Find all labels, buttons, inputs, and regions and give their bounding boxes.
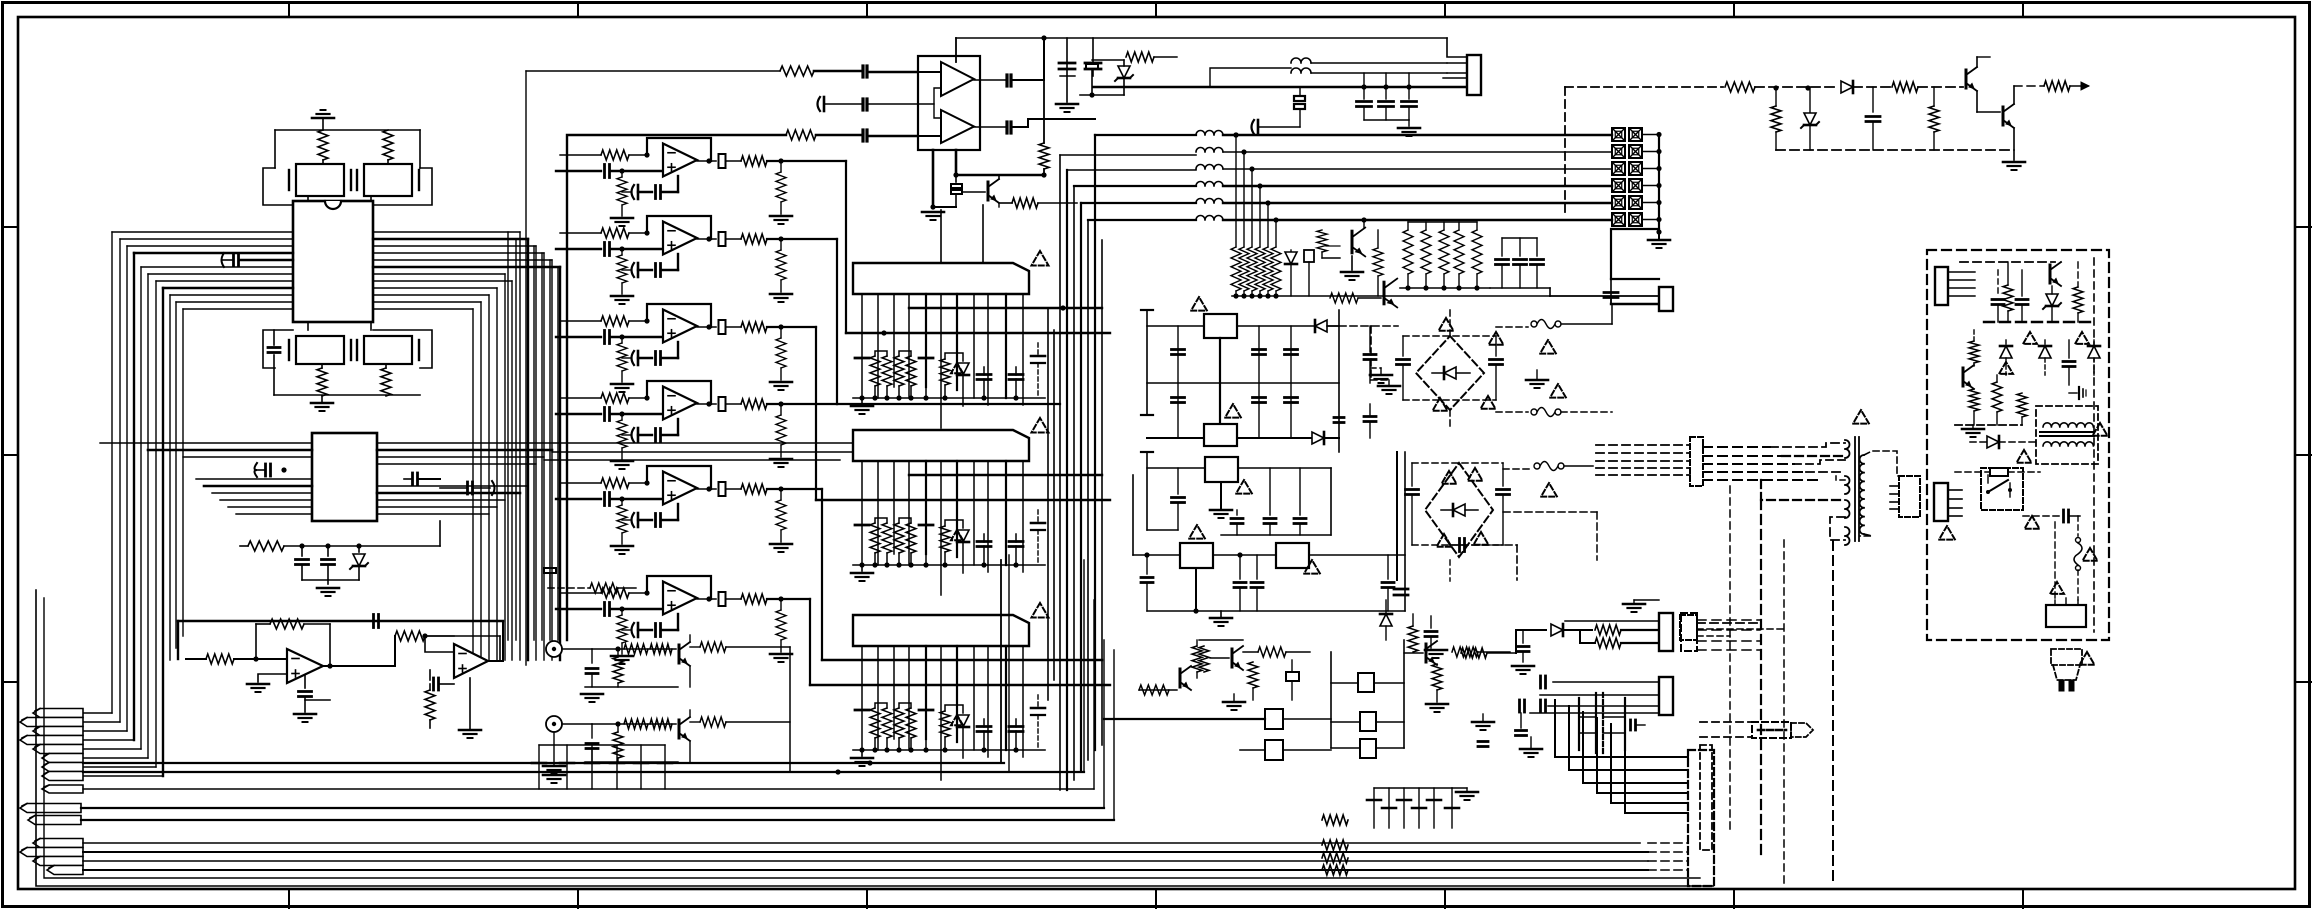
power box dashed outline — [1927, 250, 2109, 640]
op-amp cell input cap — [556, 413, 601, 415]
op-amp cell input resistor — [601, 316, 629, 326]
wire loop x44 — [44, 598, 1700, 878]
resistor bank1 em — [1373, 248, 1383, 276]
wire crystal rail — [275, 129, 420, 131]
wire reg rail — [302, 579, 359, 581]
connector J9 right — [1934, 483, 1948, 521]
RCA gnd rail — [585, 686, 678, 688]
wires J6 to primary — [1703, 446, 1770, 448]
capacitor reg-2 — [327, 546, 329, 556]
bridge rectifier BR1 dashed — [1416, 336, 1484, 410]
op-amp cell shunt resistor — [617, 420, 627, 448]
wires zener cluster — [1080, 94, 1124, 96]
transistor cluster right of U2 — [411, 473, 414, 485]
ground mid2 — [1425, 649, 1447, 652]
resistor op-amp B input — [395, 631, 425, 641]
op-amp cell load ground — [770, 293, 792, 296]
IC array RN3 — [853, 615, 1029, 646]
buffer power pin — [955, 38, 957, 62]
diodes P row — [2000, 346, 2012, 358]
op-amp cell input resistor — [601, 393, 629, 403]
wire top rail y38 — [956, 37, 1447, 39]
buffer internal wires — [918, 88, 941, 104]
wire y886 up to J5 — [1712, 885, 1714, 887]
vertical feed bus for op-amps — [525, 71, 527, 665]
wire thick out RN3 b — [810, 684, 1110, 686]
IC array RN2 — [853, 430, 1029, 461]
RCA ground 2 — [543, 765, 565, 768]
RCA cap — [591, 649, 593, 663]
wire RN1 bottom rail — [853, 397, 1045, 399]
op-amp cell polarized cap — [637, 623, 640, 637]
IC U1 main processor — [293, 201, 373, 322]
wire inlet left — [2054, 522, 2056, 600]
plug prongs — [2059, 680, 2064, 691]
driver R2 box — [1360, 712, 1376, 731]
resistor RN3 r3 — [940, 711, 950, 737]
wire thick out RN1 a — [909, 307, 1102, 309]
op-amp cell output resistor — [741, 594, 767, 604]
capacitor reg right a — [1369, 326, 1371, 352]
warning triangle plug — [2080, 652, 2095, 665]
wire from reg right — [439, 521, 441, 546]
connector J3 dashed pair — [1681, 613, 1697, 651]
capacitor mid2 — [1425, 630, 1437, 633]
wire BR2 right dashed — [1503, 511, 1597, 513]
diode feed — [1551, 624, 1563, 636]
wire top feed 3 — [567, 135, 786, 640]
op-amp cell input resistor — [601, 150, 629, 160]
capacitor C left — [268, 346, 280, 349]
resistor Q mid1 coll — [1192, 646, 1202, 672]
wire bank rail — [1232, 295, 1550, 297]
crystal network below U1 — [307, 322, 309, 330]
zener diode ZD1 — [358, 546, 360, 552]
capacitor RN2 c1 — [855, 524, 869, 527]
feedback op-amp B — [488, 636, 500, 661]
RCA transistor — [678, 720, 681, 738]
op-amp A — [287, 649, 323, 683]
ground below crystal network — [311, 402, 333, 405]
fuse F main — [2077, 516, 2079, 536]
vertical bus right-of-blocks — [1059, 155, 1061, 790]
warning triangle SW — [2025, 516, 2040, 529]
transistor Q TR2 — [1976, 91, 1978, 112]
wire cap row top — [539, 744, 665, 746]
wire mid vertical a — [1330, 652, 1332, 748]
capacitor pair C below-2 — [364, 336, 412, 364]
capacitor RN1 c2 — [919, 357, 933, 360]
wire bus y808 — [81, 807, 1104, 809]
diode RN3 — [957, 715, 969, 727]
op-amp cell output bead — [706, 236, 711, 241]
diode RN1 — [957, 363, 969, 375]
capacitor VR3 a — [1231, 517, 1243, 520]
crystal X1 — [296, 164, 344, 196]
capacitor RN1 c1 — [855, 357, 869, 360]
capacitor RN2 c3 — [977, 540, 991, 543]
warning triangle reg2 — [1225, 404, 1241, 418]
resistor zener-reg — [248, 541, 284, 551]
wire buffer drop a — [940, 210, 942, 263]
wire cell3 elbow down — [815, 327, 817, 500]
op-amp cell polarized cap — [637, 351, 640, 365]
wire J3 third — [1565, 620, 1659, 622]
wire thick bus y135 right — [1233, 132, 1238, 137]
regulator VR5 — [1276, 543, 1309, 568]
capacitor reg right c — [1334, 416, 1344, 419]
transformer T1 secondary — [1860, 455, 1864, 534]
resistor Q mid2 em — [1248, 662, 1258, 688]
wire cell2b to bus — [837, 403, 1060, 405]
op-amp cell output resistor — [741, 322, 767, 332]
capacitor buffer bottom — [955, 175, 957, 182]
fuse F3 — [1534, 463, 1540, 469]
capacitor P b — [2016, 298, 2028, 301]
capacitor T feed — [1629, 720, 1632, 730]
resistor Q mid3 em — [1432, 664, 1442, 690]
connector J8 bottom — [1680, 615, 1697, 640]
resistor dashed area — [590, 583, 618, 593]
IC array RN1 — [853, 263, 1029, 294]
transistor Q mid3 — [1425, 644, 1428, 662]
wires primary steps dashed — [1770, 443, 1845, 447]
ground top-right — [1056, 103, 1078, 106]
op-amp cell output resistor — [741, 156, 767, 166]
wires bus to connector pins — [83, 712, 112, 714]
capacitor bank — [1501, 238, 1503, 256]
capacitor BR2 right — [1497, 488, 1510, 491]
buffer IC box — [918, 56, 980, 150]
op-amp cell load resistor — [776, 250, 786, 280]
wire A to B — [372, 636, 395, 666]
capacitor reg col b — [1258, 326, 1260, 438]
driver R1 box — [1358, 673, 1374, 692]
relay K2 — [1265, 740, 1283, 760]
warning triangle F3 — [1541, 483, 1557, 497]
op-amp cell output bead — [706, 401, 711, 406]
capacitor BR1 right — [1490, 358, 1503, 361]
bus P thick dashed — [1984, 321, 2094, 323]
RCA transistor — [678, 645, 681, 663]
dashed fragment left of BR2 — [1450, 544, 1517, 546]
wire thick out RN3 a — [822, 659, 1102, 661]
warning triangles BR2 — [1442, 471, 1457, 484]
left vertical bus wires — [111, 232, 113, 713]
relay K1 — [1265, 709, 1283, 729]
ground below A — [294, 713, 316, 716]
op-amp cell input cap — [556, 336, 601, 338]
capacitor buffer in 1 — [861, 66, 864, 77]
resistor Q bank base — [1317, 230, 1327, 252]
resistor network RN1 r1 — [870, 356, 880, 386]
wire fan to J5 — [1555, 700, 1688, 757]
op-amp triangle — [663, 472, 697, 505]
component box bank — [1304, 250, 1314, 262]
wires RN3 pins down — [861, 646, 863, 710]
buffer op-amp 1 — [941, 62, 974, 96]
op-amp cell load ground — [770, 458, 792, 461]
resistor op-amp A input — [206, 654, 234, 664]
resistor P vert — [2073, 287, 2083, 313]
warning triangle inlet — [2050, 582, 2064, 594]
wire bus y789 — [83, 788, 1094, 790]
connector J7 plug — [1899, 476, 1920, 517]
op-amp triangle — [663, 582, 697, 615]
dashed stub below — [1700, 745, 1712, 850]
buffer output 2 cap — [974, 126, 1005, 128]
op-amp cell load resistor — [776, 610, 786, 640]
op-amp cell load resistor — [776, 415, 786, 445]
headphone jack tip — [1791, 723, 1813, 737]
isolation caps — [1595, 693, 1597, 753]
wire VR3 bottom — [1221, 534, 1331, 536]
capacitor RN2 c2 — [919, 524, 933, 527]
op-amp B — [454, 644, 488, 678]
regulator VR2 — [1204, 424, 1237, 446]
wire coupler to connector — [1611, 229, 1659, 279]
capacitor EMI pol — [1257, 120, 1260, 134]
wire opamp feed top — [178, 620, 503, 622]
ground reg bottom — [1195, 570, 1197, 611]
op-amp cell feedback loop — [647, 216, 711, 239]
wire buffer drop b — [982, 205, 984, 263]
capacitor buffer in 2 (pol) — [823, 97, 826, 111]
op-amp cell polarized cap — [637, 428, 640, 442]
resistor Q mid3 out — [1452, 647, 1478, 657]
RCA series resistor — [592, 648, 676, 650]
transformer T2 coils — [2043, 423, 2093, 427]
component P bottom — [1990, 468, 2008, 476]
wire VR4-VR5 — [1213, 554, 1276, 556]
border tick marks — [288, 2, 290, 17]
op-amp cell input resistor — [601, 478, 629, 488]
resistor bank below coils — [1235, 135, 1237, 247]
fuse F2 — [1531, 409, 1537, 415]
op-amp cell feedback loop — [647, 304, 711, 327]
op-amp cell polarized cap — [637, 513, 640, 527]
wire op-amp B output — [488, 621, 503, 661]
buffer output 1 cap — [974, 79, 1005, 81]
resistor R osc1 — [318, 130, 328, 160]
zener cluster x1100 — [1086, 64, 1098, 69]
resistor TR vert — [1775, 88, 1777, 106]
ground RN3 — [861, 750, 863, 756]
op-amp cell feedback loop — [647, 466, 711, 489]
op-amp cell load resistor — [776, 338, 786, 368]
vertical x1405 — [1404, 452, 1406, 611]
resistor Q emitter — [1012, 198, 1038, 208]
connector J4 — [1659, 677, 1673, 715]
RCA out resistor — [689, 710, 691, 717]
resistor feed — [1461, 648, 1487, 658]
warning triangle T1 — [1853, 410, 1869, 424]
capacitor VR45 a — [1234, 581, 1246, 584]
op-amp cell output bead — [706, 486, 711, 491]
resistor RN1 r3 — [940, 359, 950, 385]
warning triangle J9 — [1939, 526, 1955, 540]
resistor P mid — [2003, 285, 2013, 311]
op-amp cell input cap — [556, 170, 601, 172]
ground zener-reg — [317, 587, 339, 590]
power box inner dashed — [2093, 258, 2095, 632]
resistor network RN3 r2 — [894, 708, 904, 738]
RCA resistor — [615, 721, 620, 726]
capacitor TR — [1872, 87, 1874, 112]
wire cell1 elbow down — [845, 161, 847, 333]
op-amp cell load resistor — [776, 172, 786, 202]
wire cell5 elbow down — [821, 489, 823, 660]
wires U1 right pins — [373, 231, 520, 233]
wire loop y886 — [36, 590, 1713, 886]
transistor Q bank2 — [1383, 282, 1386, 304]
capacitor VR45 c — [1382, 581, 1394, 584]
connector J5 dashed — [1688, 750, 1714, 886]
capacitor pair C below-1 — [296, 336, 344, 364]
IC U2 secondary — [312, 433, 377, 521]
capacitor trio top — [1363, 73, 1365, 99]
wires BR1 dashed — [1449, 310, 1451, 336]
wires U1 left pins to bus — [112, 231, 293, 233]
capacitor mid box — [1286, 672, 1299, 681]
plug P1 dashed — [2051, 649, 2082, 665]
capacitor op-amp A output — [327, 663, 332, 668]
RCA resistor — [615, 646, 620, 651]
transformer T1 core — [1854, 437, 1856, 541]
wire VR4 feed — [1133, 554, 1180, 556]
wires RN2 pins down — [861, 461, 863, 525]
op-amp cell output bead — [706, 596, 711, 601]
wire P gnd rail — [1955, 424, 2022, 426]
zener TR — [1809, 88, 1811, 112]
wires reg dashed right — [1339, 325, 1398, 327]
capacitor bank bottom mid — [1373, 788, 1375, 828]
op-amp cell ground — [621, 533, 623, 544]
wire TR output arrow — [2014, 85, 2044, 87]
transformer T1 primary — [1845, 440, 1850, 458]
resistor network RN1 r2 — [894, 356, 904, 386]
switch SW1 box — [1981, 468, 2023, 510]
op-amp cell output bead — [706, 158, 711, 163]
resistor network RN2 r1 — [870, 523, 880, 553]
op-amp cell shunt resistor — [617, 505, 627, 533]
resistors P left — [1969, 341, 1979, 363]
resistor top feed 3 — [786, 130, 816, 140]
op-amp cell ground — [621, 643, 623, 654]
op-amp cell input cap — [556, 498, 601, 500]
regulator VR4 — [1180, 543, 1213, 568]
capacitor BR2 left — [1406, 488, 1419, 491]
op-amp cell feedback loop — [647, 138, 711, 161]
warning triangle near RN1 — [1032, 251, 1049, 265]
resistor mid x1410 — [1408, 626, 1418, 652]
inductor top L7 — [1291, 58, 1311, 63]
capacitor reg col a — [1177, 326, 1179, 438]
buffer bottom node bus — [932, 150, 935, 207]
diode RN2 — [957, 530, 969, 542]
transistor Q buffer — [962, 191, 985, 193]
warning triangle near RN2 — [1032, 418, 1049, 432]
connector pin group 1 — [33, 709, 83, 718]
wire bus y772 — [83, 771, 1084, 773]
warning triangle near RN3 — [1032, 603, 1049, 617]
ground feed — [1512, 665, 1534, 668]
wires BR2 dashed — [1412, 462, 1503, 464]
wire RN2 bottom rail — [853, 564, 1045, 566]
zener ZD top — [1118, 66, 1130, 78]
ground Q bank1 — [1351, 256, 1353, 270]
wires power box top — [1960, 261, 2055, 263]
wire bus y852 — [83, 851, 1648, 853]
ground BR1 left — [1370, 374, 1392, 377]
op-amp cell output resistor — [741, 484, 767, 494]
capacitor VR45 b — [1251, 581, 1263, 584]
capacitor right of U2 — [466, 482, 469, 494]
capacitor RN1 c4 — [1009, 373, 1023, 376]
wire RN3 bottom rail — [853, 749, 1045, 751]
op-amp cell input resistor — [601, 588, 629, 598]
wire bus y870 — [83, 869, 1648, 871]
ground iso — [1520, 748, 1542, 751]
ground cap row — [543, 774, 565, 777]
ground RN2 — [861, 565, 863, 571]
capacitor buffer in 3 — [861, 130, 864, 141]
wires J6 dashed — [1596, 444, 1690, 446]
resistors on bus lines — [1322, 815, 1348, 825]
wires J4 feeds — [1553, 681, 1659, 683]
wire bank to J-mid — [1549, 288, 1551, 296]
warning triangle T2 — [2093, 423, 2108, 436]
connector pin single — [42, 785, 83, 793]
resistor TR1 — [1725, 82, 1755, 92]
antenna cap P — [2069, 392, 2077, 394]
buffer bias resistor — [1043, 80, 1045, 143]
capacitor RN1 c3 — [977, 373, 991, 376]
op-amp cell shunt resistor — [617, 615, 627, 643]
op-amp cell ground — [621, 283, 623, 294]
RCA jack — [546, 641, 562, 657]
resistor bank2 — [1407, 222, 1409, 230]
diode BR2 — [1453, 504, 1465, 516]
regulator VR3 — [1205, 457, 1238, 482]
warning triangle VR5 — [1304, 560, 1320, 574]
capacitor op-amp B below — [429, 670, 431, 680]
resistor below B — [425, 690, 435, 720]
op-amp cell polarized cap — [637, 185, 640, 199]
transistor Q mid2 — [1231, 649, 1234, 667]
op-amp cell output bead — [706, 324, 711, 329]
inductors L1-L6 — [1196, 131, 1223, 136]
op-amp cell input resistor — [601, 228, 629, 238]
ground F1 — [1526, 379, 1548, 382]
resistor TR2 — [1892, 82, 1918, 92]
buffer op-amp 2 — [941, 110, 974, 143]
bus elbows to coils — [1060, 154, 1196, 156]
ground cap trio — [1408, 120, 1410, 126]
AC inlet — [2046, 605, 2086, 627]
wire thick out RN1 b — [846, 332, 1110, 334]
ground RN1 — [861, 398, 863, 404]
wire bus y861 — [83, 860, 1648, 862]
op-amp cell output resistor — [741, 234, 767, 244]
wire connector TR top — [1447, 38, 1467, 57]
resistor top x1140 — [1126, 52, 1154, 62]
wire cell2 elbow down — [836, 239, 838, 404]
resistor pair to J3 — [1595, 625, 1621, 635]
resistor Q mid2 out — [1258, 647, 1286, 657]
wire VR5 out — [1309, 554, 1405, 556]
RCA gnd rail — [585, 761, 678, 763]
